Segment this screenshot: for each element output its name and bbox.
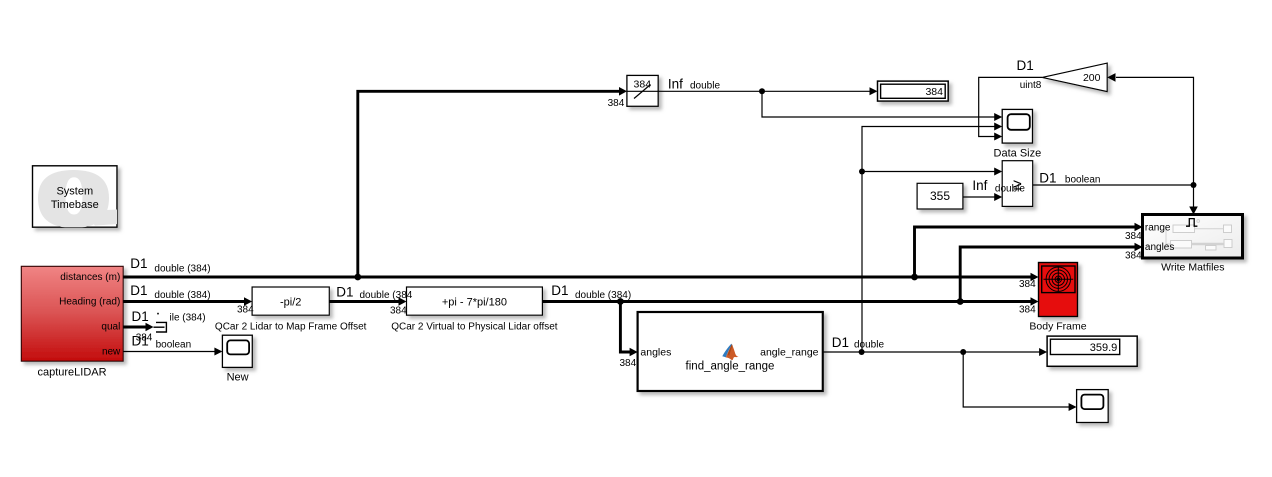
svg-text:384: 384 xyxy=(390,306,407,317)
svg-text:Heading (rad): Heading (rad) xyxy=(59,297,120,308)
svg-text:384: 384 xyxy=(634,79,652,91)
MATLAB function block "find_angle_range" xyxy=(638,312,823,391)
arrow into width block xyxy=(619,87,627,96)
scope block (unnamed, bottom right) xyxy=(1077,390,1109,423)
svg-text:double (384): double (384) xyxy=(154,290,210,301)
svg-text:New: New xyxy=(227,372,249,384)
arrow into Data Size in3 xyxy=(994,133,1002,141)
svg-text:new: new xyxy=(102,347,121,358)
arrow into Body Frame in1 xyxy=(1031,273,1039,282)
wire angle_range -> display 359.9 xyxy=(823,351,1041,353)
svg-text:double: double xyxy=(690,81,720,92)
arrow into Write Matfiles trigger (points down) xyxy=(1189,207,1198,215)
wire branch distances -> width block xyxy=(358,91,620,277)
scope block "New" xyxy=(222,335,252,384)
svg-text:uint8: uint8 xyxy=(1020,80,1042,91)
svg-text:double: double xyxy=(995,184,1025,195)
svg-text:D1: D1 xyxy=(132,309,149,324)
svg-text:double (384): double (384) xyxy=(575,290,631,301)
wire branch -> Data Size in1 xyxy=(762,91,996,117)
svg-text:Data Size: Data Size xyxy=(994,147,1042,159)
wire gain 200 out -> Data Size in3 xyxy=(979,77,1042,136)
arrow into Body Frame in2 xyxy=(1031,297,1039,306)
svg-text:355: 355 xyxy=(930,189,950,203)
subsystem captureLIDAR xyxy=(21,266,123,378)
wire branch distances -> Write Matfiles range xyxy=(915,227,1136,277)
wire -pi/2 -> +pi-7*pi/180 xyxy=(329,300,400,303)
svg-text:D1: D1 xyxy=(1039,170,1056,185)
svg-text:384: 384 xyxy=(1125,231,1142,242)
MATLAB logo icon xyxy=(722,344,738,360)
wire 355 -> relational op in2 xyxy=(963,196,996,198)
svg-text:D1: D1 xyxy=(132,334,149,349)
svg-text:angles: angles xyxy=(1145,242,1174,253)
wire +pi-7*pi/180 -> Body Frame in2 xyxy=(542,300,1031,303)
svg-text:angles: angles xyxy=(640,346,671,358)
svg-text:D1: D1 xyxy=(832,335,849,350)
svg-text:Inf: Inf xyxy=(972,178,987,193)
display block "359.9" xyxy=(1047,336,1137,366)
gain block "200" (triangle, points left) xyxy=(1042,63,1107,92)
wire branch -> find_angle_range angles xyxy=(620,302,631,353)
wire branch -> Write Matfiles angles xyxy=(960,247,1135,302)
node distances/range branch xyxy=(911,274,918,281)
width block "384" probe xyxy=(627,75,658,106)
arrow into find_angle_range xyxy=(630,348,638,357)
display block "384" xyxy=(878,81,949,101)
node distances/width branch xyxy=(354,274,361,281)
wire relational op out -> junction xyxy=(1033,184,1194,186)
svg-text:384: 384 xyxy=(1019,305,1036,316)
svg-text:359.9: 359.9 xyxy=(1090,342,1118,354)
wire angle_range net vertical -> Data Size in2 xyxy=(862,127,996,353)
scope block "Body Frame" (red polar icon) xyxy=(1029,263,1086,333)
svg-text:384: 384 xyxy=(608,98,625,109)
wire Heading (rad) -> -pi/2 xyxy=(123,300,245,303)
terminator bracket for qual signal xyxy=(154,322,167,332)
wire branch -> scope bottom right xyxy=(963,352,1070,407)
svg-text:+pi - 7*pi/180: +pi - 7*pi/180 xyxy=(442,296,507,308)
arrow into Write Matfiles range xyxy=(1135,223,1143,232)
wire new -> New scope (thin) xyxy=(123,351,216,353)
svg-text:D1: D1 xyxy=(130,283,147,298)
node relational-in1 branch xyxy=(859,169,865,175)
wire branch -> relational op in1 xyxy=(862,171,996,173)
svg-text:distances (m): distances (m) xyxy=(60,272,120,283)
svg-text:384: 384 xyxy=(925,86,943,98)
svg-text:Inf: Inf xyxy=(668,77,683,92)
subsystem "System Timebase" xyxy=(33,166,119,228)
wire junction down -> Write Matfiles trigger xyxy=(1193,185,1195,208)
svg-text:D1: D1 xyxy=(130,256,147,271)
svg-text:384: 384 xyxy=(1125,251,1142,262)
arrow into New scope xyxy=(214,348,222,356)
arrow into +pi-7*pi/180 xyxy=(399,297,407,306)
svg-text:Body Frame: Body Frame xyxy=(1029,320,1086,332)
arrow into -pi/2 xyxy=(244,297,252,306)
svg-text:D1: D1 xyxy=(1017,58,1034,73)
svg-text:angle_range: angle_range xyxy=(760,346,819,358)
arrow into Data Size in2 xyxy=(994,123,1002,131)
label partial "ile (384)" (qual wire) xyxy=(157,313,159,315)
constant block "355" xyxy=(917,183,963,209)
wire width block -> display 384 xyxy=(658,90,871,92)
node boolean split xyxy=(1191,182,1197,188)
svg-text:qual: qual xyxy=(101,322,120,333)
wire junction up -> gain 200 input xyxy=(1116,77,1194,185)
svg-text:double (384): double (384) xyxy=(154,264,210,275)
node angle_range/datasize branch xyxy=(859,349,865,355)
svg-text:Write Matfiles: Write Matfiles xyxy=(1161,261,1224,273)
arrow into display 384 xyxy=(870,87,878,95)
relational operator block ">=" xyxy=(1002,161,1032,207)
svg-text:D1: D1 xyxy=(336,284,353,299)
subsystem "Write Matfiles" xyxy=(1143,215,1243,274)
svg-text:QCar 2 Virtual to Physical Lid: QCar 2 Virtual to Physical Lidar offset xyxy=(391,321,558,332)
svg-text:System: System xyxy=(56,186,93,198)
svg-text:double (384: double (384 xyxy=(360,290,413,301)
arrow into relational op in1 xyxy=(994,168,1002,176)
svg-text:200: 200 xyxy=(1083,72,1101,84)
node offset-out/angles branch xyxy=(617,298,624,305)
bias block "+pi - 7*pi/180" (QCar 2 Virtual to Physical Lidar offset) xyxy=(391,287,558,332)
arrow into Write Matfiles angles xyxy=(1135,243,1143,252)
svg-text:D1: D1 xyxy=(551,283,568,298)
arrow into relational op in2 xyxy=(994,193,1002,201)
scope block "Data Size" xyxy=(994,109,1042,159)
svg-text:double: double xyxy=(854,340,884,351)
svg-text:384: 384 xyxy=(1019,279,1036,290)
svg-text:ile (384): ile (384) xyxy=(170,313,206,324)
node offset-out/WM-angles branch xyxy=(957,298,964,305)
svg-text:384: 384 xyxy=(237,304,254,315)
svg-text:-pi/2: -pi/2 xyxy=(280,296,301,308)
svg-text:QCar 2 Lidar to Map Frame Offs: QCar 2 Lidar to Map Frame Offset xyxy=(215,321,367,332)
arrow into bottom scope xyxy=(1069,403,1077,411)
svg-text:boolean: boolean xyxy=(1065,175,1101,186)
svg-text:boolean: boolean xyxy=(156,340,192,351)
svg-text:Timebase: Timebase xyxy=(51,199,99,211)
svg-text:captureLIDAR: captureLIDAR xyxy=(37,367,106,379)
arrow into Data Size in1 xyxy=(994,113,1002,121)
node angle_range/scope branch xyxy=(960,349,966,355)
faint subsystem preview contents xyxy=(1171,225,1233,250)
trigger port pulse icon xyxy=(1186,219,1197,227)
wire distances (m) -> Body Frame in1 (thick vector) xyxy=(123,77,1193,407)
arrow qual terminator xyxy=(146,323,154,332)
svg-text:find_angle_range: find_angle_range xyxy=(686,360,775,372)
node width-out/display branch xyxy=(759,88,765,94)
gain block "-pi/2" (QCar 2 Lidar to Map Frame Offset) xyxy=(215,287,367,332)
arrowheads xyxy=(146,73,1198,411)
svg-text:384: 384 xyxy=(620,358,637,369)
svg-text:range: range xyxy=(1145,222,1171,233)
arrow into display 359.9 xyxy=(1039,348,1047,356)
wire qual -> terminator xyxy=(123,326,146,329)
arrow into gain 200 (points left) xyxy=(1107,73,1115,82)
